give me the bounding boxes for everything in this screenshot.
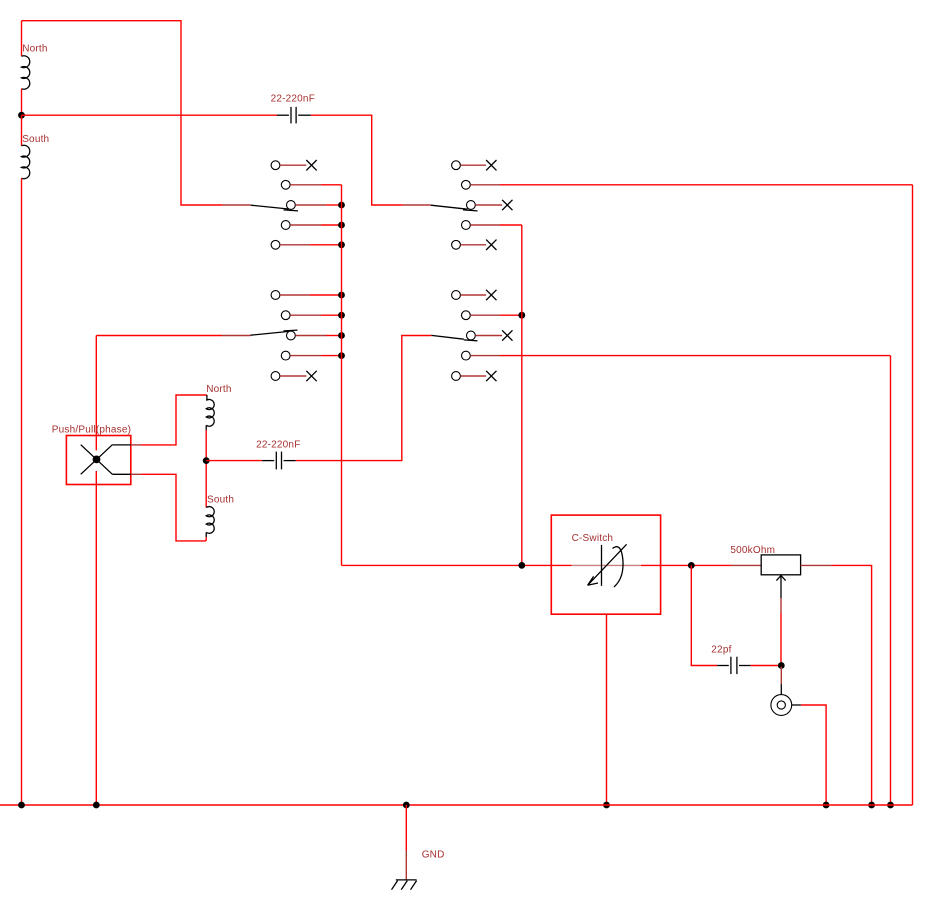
SW2 contact 4 wire to rail V2 <box>462 221 522 230</box>
SW2 contact 2 wire to output rail <box>462 180 913 189</box>
svg-text:GND: GND <box>422 850 445 861</box>
wire pot right terminal to ground bus <box>801 565 875 808</box>
potentiometer R1 500kOhm body <box>761 555 800 575</box>
svg-text:Push/Pull(phase): Push/Pull(phase) <box>52 424 131 435</box>
SW2 contact 10 with no-connect X <box>452 371 497 381</box>
inductor North (neck pickup) with pin wires <box>22 21 30 116</box>
capacitor C3 22pf <box>717 657 750 674</box>
node bus junction push-pull <box>93 802 100 809</box>
svg-text:North: North <box>22 44 47 55</box>
inductor North 2 (middle) <box>206 395 214 461</box>
svg-text:South: South <box>22 134 49 145</box>
rotary switch SW1 wiper arm lower <box>251 330 298 335</box>
wire top net from North coil to left switch wiper <box>22 21 223 205</box>
svg-text:North: North <box>206 384 231 395</box>
wire center tap to capacitor C1 <box>22 114 278 116</box>
svg-text:C-Switch: C-Switch <box>572 533 614 544</box>
SW1 contact 8 wire and junction <box>287 331 345 340</box>
SW1 contact 9 wire and junction <box>281 351 345 360</box>
node junction tone branch on signal net <box>688 562 695 569</box>
svg-text:22-220nF: 22-220nF <box>256 440 300 451</box>
SW1 contact 6 wire and junction <box>271 291 345 300</box>
SW2 contact 5 with no-connect X <box>452 240 497 250</box>
node B junction of middle coils <box>203 457 210 464</box>
rotary switch SW2 wiper arm lower <box>431 335 477 340</box>
SW1 contact 1 with no-connect X <box>271 160 317 170</box>
SW1 contact 2 wire to common rail <box>281 180 341 189</box>
capacitor C1 22-220nF <box>277 107 311 124</box>
wire C-Switch bottom pin to ground bus <box>603 614 610 808</box>
node bus junction GND tap <box>403 802 410 809</box>
capacitor C2 22-220nF <box>262 452 296 470</box>
wire SW2 row9 output down to ground bus <box>887 356 894 809</box>
node junction SW2 rail V2 on signal net <box>518 562 525 569</box>
node bus junction South coil <box>18 802 25 809</box>
wire push-pull common down to ground bus <box>95 336 97 806</box>
potentiometer R1 wiper arrow <box>776 576 785 666</box>
wire SW2 rail V2 down to C-Switch net <box>521 225 523 565</box>
wire SW2 row2 output down right edge to ground bus <box>912 185 914 805</box>
wire C2 to SW2 lower wiper <box>296 336 432 461</box>
wire C1 to right switch wiper <box>311 115 431 205</box>
wire from push-pull net to left switch lower wiper <box>96 335 250 337</box>
svg-text:22-220nF: 22-220nF <box>271 94 315 105</box>
SW1 contact 4 wire and junction <box>281 221 345 230</box>
ground bus wire <box>0 804 913 806</box>
svg-text:22pf: 22pf <box>711 645 731 656</box>
rotary switch SW2 wiper arm upper <box>431 205 478 211</box>
svg-text:South: South <box>207 494 234 505</box>
SW1 contact 3 wire and junction <box>287 201 345 210</box>
push-pull switch S3 body box <box>66 436 130 485</box>
wire jack output to ground bus <box>801 705 830 808</box>
wire main signal net to C-Switch and volume pot <box>342 564 762 566</box>
SW2 contact 6 with no-connect X <box>452 290 497 300</box>
output jack J1 <box>771 667 801 716</box>
SW1 contact 10 with no-connect X <box>271 371 317 381</box>
ground symbol <box>392 880 417 890</box>
pin wire dark segment of top wiper feed <box>223 204 251 206</box>
wire push-pull upper throw to North coil 2 <box>131 395 207 445</box>
SW2 contact 8 with no-connect X <box>467 330 513 340</box>
wire C3 to wiper node <box>751 662 785 669</box>
SW2 contact 1 with no-connect X <box>452 160 497 170</box>
C-Switch box U1 <box>551 515 660 614</box>
node A junction of North/South coils <box>18 112 25 119</box>
rotary switch SW1 wiper arm upper <box>251 205 298 211</box>
variable capacitor symbol inside C-Switch <box>588 544 627 587</box>
wire tone branch down to capacitor C3 <box>691 565 717 665</box>
inductor South (bottom coil) with pin wires <box>22 115 30 805</box>
wire node B to capacitor C2 <box>206 460 262 462</box>
push-pull switch S3 crossing contacts <box>81 445 131 475</box>
wire SW1 common rail down to C-Switch net <box>341 185 343 566</box>
wire push-pull lower throw to South coil 2 <box>131 474 206 541</box>
SW2 contact 9 wire to output rail 2 <box>462 351 891 360</box>
SW2 contact 7 wire and junction <box>462 311 526 320</box>
SW1 contact 7 wire and junction <box>281 311 345 320</box>
SW2 contact 3 with no-connect X <box>467 200 513 210</box>
wire GND tap <box>405 805 407 880</box>
inductor South 2 (middle) <box>206 461 214 541</box>
SW1 contact 5 wire and junction <box>271 240 345 249</box>
